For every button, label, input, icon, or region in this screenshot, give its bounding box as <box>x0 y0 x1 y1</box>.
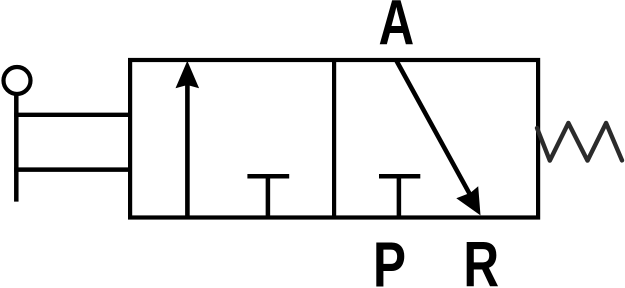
push button: lower rod <box>14 167 130 172</box>
push button: knob circle <box>4 67 31 94</box>
push button: stem <box>14 94 19 202</box>
valve body: two-position box <box>130 60 538 218</box>
svg-text:P: P <box>373 229 406 288</box>
position divider <box>332 60 336 218</box>
flow path arrow (right position) head <box>456 186 480 215</box>
flow path arrow (left position) head <box>176 61 200 88</box>
blocked port T (right position) <box>379 176 420 217</box>
blocked port T (left position) <box>247 176 289 217</box>
flow path arrow (left position, P to A) shaft <box>185 80 190 218</box>
svg-text:R: R <box>463 229 499 288</box>
push button: upper rod <box>14 113 130 117</box>
svg-text:A: A <box>379 0 415 59</box>
spring return (right end) <box>537 123 622 161</box>
flow path arrow (right position, A to R) shaft <box>397 61 472 198</box>
